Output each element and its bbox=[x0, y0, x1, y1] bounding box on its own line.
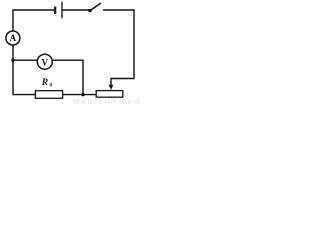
svg-text:V: V bbox=[42, 57, 49, 67]
svg-text:A: A bbox=[10, 33, 17, 43]
svg-text:manfen5.com: manfen5.com bbox=[73, 96, 143, 105]
svg-text:R: R bbox=[41, 78, 48, 88]
